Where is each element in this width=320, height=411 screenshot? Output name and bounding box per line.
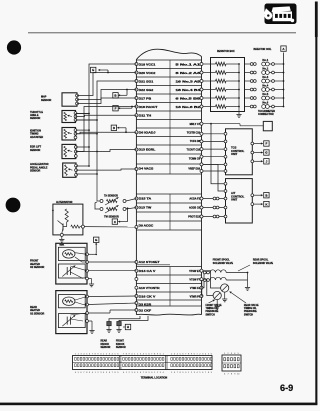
svg-text:D14 CA V: D14 CA V — [139, 269, 156, 273]
svg-text:1: 1 — [224, 353, 225, 355]
svg-text:6 No.5 B8: 6 No.5 B8 — [176, 98, 202, 101]
TCS output marker F — [251, 142, 254, 145]
svg-text:SWITCH: SWITCH — [244, 314, 254, 316]
svg-text:5: 5 — [171, 372, 172, 374]
wire IGADJ signal — [76, 132, 137, 134]
svg-text:TERMINAL LOCATION: TERMINAL LOCATION — [141, 376, 168, 379]
svg-text:VTMF F2: VTMF F2 — [190, 287, 201, 290]
svg-text:6: 6 — [81, 372, 82, 374]
TW sensor (coolant temperature) — [100, 208, 103, 211]
rear heated oxygen sensor — [56, 291, 87, 334]
front valve timing oil pressure switch — [213, 291, 221, 299]
svg-text:SENSOR: SENSOR — [101, 347, 111, 349]
wire PAOUT — [76, 107, 136, 152]
TCS control unit — [226, 129, 253, 175]
reference marker near knock sensors — [123, 326, 125, 328]
ignition timing adjuster — [62, 128, 76, 141]
svg-text:2: 2 — [171, 354, 172, 356]
wire VACS signal — [76, 169, 136, 170]
svg-text:4: 4 — [177, 354, 178, 356]
svg-text:3: 3 — [100, 372, 101, 374]
wire ECU VTSW to rear oil pressure switch — [203, 271, 221, 288]
svg-text:4: 4 — [112, 354, 113, 356]
svg-text:8: 8 — [114, 372, 115, 374]
svg-text:No.1: No.1 — [262, 58, 268, 62]
reference marker G with up arrow — [95, 243, 97, 253]
svg-text:TCFS D8: TCFS D8 — [190, 140, 201, 143]
svg-text:7: 7 — [143, 372, 144, 374]
svg-text:4: 4 — [143, 354, 144, 356]
small connector strip — [222, 355, 241, 371]
svg-text:3: 3 — [81, 354, 82, 356]
svg-text:6: 6 — [109, 372, 110, 374]
svg-text:1: 1 — [197, 354, 198, 356]
svg-text:E: E — [92, 68, 94, 72]
svg-text:9: 9 — [157, 354, 158, 356]
svg-text:5: 5 — [106, 372, 107, 374]
svg-text:2: 2 — [137, 354, 138, 356]
svg-text:8: 8 — [188, 354, 189, 356]
svg-text:D9 ACGC: D9 ACGC — [139, 224, 154, 228]
svg-text:10: 10 — [237, 373, 239, 375]
svg-text:6: 6 — [140, 372, 141, 374]
alternator — [53, 204, 83, 235]
svg-text:4: 4 — [197, 372, 198, 374]
svg-text:D11 TH: D11 TH — [139, 114, 152, 118]
resistor box ground — [238, 112, 240, 115]
svg-text:6: 6 — [211, 354, 212, 356]
svg-text:0: 0 — [194, 354, 195, 356]
reference marker near ignition adjuster — [125, 131, 127, 133]
svg-text:D13 EGRL: D13 EGRL — [139, 148, 156, 152]
svg-text:G201: G201 — [59, 245, 65, 247]
svg-text:0: 0 — [100, 354, 101, 356]
svg-text:7: 7 — [92, 354, 93, 356]
wire ECU to TCS control unit — [203, 140, 224, 142]
wire SG2 to MAP — [77, 90, 136, 104]
svg-text:KNOCK: KNOCK — [116, 344, 125, 346]
svg-text:No.3: No.3 — [262, 75, 268, 79]
injector No.4 — [245, 89, 251, 91]
resistor R2 — [203, 72, 216, 74]
svg-text:6: 6 — [224, 373, 225, 375]
svg-text:PRESSURE: PRESSURE — [244, 311, 257, 313]
tachometer connector — [263, 121, 272, 130]
svg-text:1: 1 — [126, 372, 127, 374]
wire EGRL signal — [97, 150, 136, 152]
svg-text:7: 7 — [123, 354, 124, 356]
accelerator pedal angle sensor — [63, 163, 76, 177]
svg-text:D15 TA: D15 TA — [139, 197, 152, 201]
svg-text:ACGA F1: ACGA F1 — [189, 198, 200, 201]
wire MRLY to tachometer connector — [203, 123, 240, 125]
wire VCC2 to MAP — [77, 73, 136, 96]
svg-text:8: 8 — [154, 354, 155, 356]
svg-text:0: 0 — [185, 372, 186, 374]
svg-text:4: 4 — [75, 372, 76, 374]
wire TA to ECU — [126, 199, 136, 202]
wire ECU to TCS control unit — [203, 148, 224, 150]
svg-text:SWITCH: SWITCH — [206, 314, 216, 316]
svg-text:9: 9 — [148, 372, 149, 374]
svg-text:F: F — [115, 106, 117, 110]
svg-text:D21 SG1: D21 SG1 — [139, 80, 154, 84]
svg-text:0: 0 — [123, 372, 124, 374]
svg-text:SENSOR: SENSOR — [41, 99, 52, 102]
svg-text:2: 2 — [199, 354, 200, 356]
svg-text:SOLENOID VALVE: SOLENOID VALVE — [213, 262, 234, 265]
svg-text:ACGB C9: ACGB C9 — [189, 207, 201, 210]
wire ECU to TCS control unit — [203, 170, 224, 172]
svg-text:5: 5 — [146, 354, 147, 356]
A/T output marker K — [251, 203, 254, 206]
svg-text:SOLENOID VALVE: SOLENOID VALVE — [253, 262, 274, 265]
svg-text:D2 CKF: D2 CKF — [139, 309, 152, 313]
svg-text:1: 1 — [188, 372, 189, 374]
svg-text:PROT E13: PROT E13 — [188, 216, 200, 219]
svg-text:No.5: No.5 — [262, 92, 268, 96]
svg-text:2: 2 — [78, 354, 79, 356]
svg-text:1: 1 — [103, 354, 104, 356]
injector No.6 — [245, 106, 251, 108]
wire ECU to rear knock sensor — [109, 316, 140, 322]
wire PB signal — [77, 98, 136, 100]
svg-text:9: 9 — [234, 373, 235, 375]
svg-text:KNOCK: KNOCK — [101, 344, 110, 346]
svg-text:6: 6 — [202, 372, 203, 374]
wire rear O2 signal to ECU — [88, 312, 110, 314]
wire riser to A/T pin 1 — [210, 123, 212, 125]
svg-text:SENSOR: SENSOR — [30, 170, 41, 173]
svg-text:TCMM C8: TCMM C8 — [189, 158, 201, 161]
resistor R6 — [203, 106, 216, 108]
svg-text:2: 2 — [129, 372, 130, 374]
injector No.2 — [245, 72, 251, 74]
svg-text:3: 3 — [160, 372, 161, 374]
svg-text:3: 3 — [131, 372, 132, 374]
svg-text:8: 8 — [86, 372, 87, 374]
svg-text:6: 6 — [148, 354, 149, 356]
svg-text:4: 4 — [234, 353, 235, 355]
wire riser to A/T pin 2 — [203, 164, 226, 191]
svg-text:D13 TW: D13 TW — [139, 206, 152, 210]
svg-text:4: 4 — [134, 372, 135, 374]
resistor R1 — [203, 63, 216, 65]
resistor box — [211, 58, 245, 112]
wire ECU VTSW2 to front oil pressure switch — [203, 279, 213, 295]
svg-text:4: 4 — [205, 354, 206, 356]
svg-text:9: 9 — [98, 354, 99, 356]
svg-text:6: 6 — [117, 354, 118, 356]
svg-text:REAR: REAR — [101, 340, 108, 343]
ECU connector divider — [169, 60, 171, 174]
wire front O2 heater to marker — [88, 253, 96, 255]
svg-text:3: 3 — [140, 354, 141, 356]
TA sensor (intake air temperature) — [100, 200, 103, 203]
svg-text:0: 0 — [160, 354, 161, 356]
svg-text:D4 VACS: D4 VACS — [139, 167, 154, 171]
reference marker on PAOUT wire — [131, 106, 133, 108]
rear O2 internal wires — [75, 297, 87, 301]
svg-text:18 No.4 B4: 18 No.4 B4 — [176, 89, 202, 92]
svg-text:2: 2 — [106, 354, 107, 356]
wire ECU to TCS control unit — [203, 163, 224, 165]
svg-text:8: 8 — [231, 373, 232, 375]
wire TW left join — [95, 202, 100, 209]
svg-text:5: 5 — [86, 354, 87, 356]
svg-text:D16 CK V: D16 CK V — [139, 295, 156, 299]
front spool solenoid valve — [203, 271, 206, 274]
svg-text:INJECTOR COIL: INJECTOR COIL — [254, 49, 273, 51]
svg-text:TIMING OIL: TIMING OIL — [206, 308, 219, 310]
svg-text:FRONT VALVE: FRONT VALVE — [206, 304, 223, 307]
alternator ground — [60, 233, 63, 236]
TCS output marker J — [251, 160, 254, 163]
front knock sensor — [117, 322, 121, 326]
svg-text:FRONT SPOOL: FRONT SPOOL — [213, 260, 230, 262]
svg-text:No.4: No.4 — [262, 84, 268, 88]
svg-text:No.6: No.6 — [262, 101, 268, 105]
svg-text:0: 0 — [92, 372, 93, 374]
svg-text:0: 0 — [131, 354, 132, 356]
wire front O2 signal to ECU — [88, 270, 136, 272]
svg-text:No.2: No.2 — [262, 67, 268, 71]
svg-text:0: 0 — [151, 372, 152, 374]
rear spool pointer — [238, 265, 250, 271]
svg-text:4: 4 — [103, 372, 104, 374]
svg-text:UNIT: UNIT — [231, 198, 238, 202]
svg-text:7: 7 — [205, 372, 206, 374]
ECU left edge terminal circles — [135, 63, 138, 66]
svg-text:6 No.2 A3: 6 No.2 A3 — [176, 72, 202, 75]
svg-text:SENSOR: SENSOR — [116, 347, 126, 349]
svg-text:1: 1 — [134, 354, 135, 356]
resistor box common bus — [238, 64, 240, 112]
svg-text:D19 VCC1: D19 VCC1 — [139, 63, 156, 67]
svg-text:VREF D16: VREF D16 — [188, 168, 200, 171]
svg-text:6: 6 — [182, 354, 183, 356]
wire front O2 to ECU A12 — [88, 261, 136, 263]
svg-text:1: 1 — [163, 354, 164, 356]
injector No.1 — [245, 63, 251, 65]
wire SG1 rail — [76, 81, 137, 120]
reference marker B with arrow — [107, 72, 109, 74]
svg-text:5: 5 — [114, 354, 115, 356]
svg-text:8: 8 — [208, 372, 209, 374]
svg-text:D6 IGADJ: D6 IGADJ — [139, 131, 156, 135]
svg-text:7: 7 — [177, 372, 178, 374]
header rule — [28, 32, 296, 34]
svg-text:MRLY C7: MRLY C7 — [190, 123, 201, 126]
terminal pins and numbering — [75, 357, 77, 360]
svg-text:6: 6 — [174, 372, 175, 374]
svg-text:D20 VCC2: D20 VCC2 — [139, 71, 156, 75]
wire rear O2 to ECU KSR row — [88, 303, 136, 305]
svg-text:9: 9 — [211, 372, 212, 374]
svg-text:7: 7 — [185, 354, 186, 356]
wire ECU to TCS control unit — [203, 156, 224, 158]
svg-text:SENSOR: SENSOR — [30, 149, 41, 152]
svg-text:5: 5 — [180, 354, 181, 356]
svg-text:1: 1 — [75, 354, 76, 356]
svg-text:9: 9 — [191, 354, 192, 356]
svg-text:TW SENSOR: TW SENSOR — [104, 215, 119, 218]
rear valve timing oil pressure switch — [221, 284, 229, 292]
terminal location connector strip — [73, 356, 213, 370]
partial row line under A12 — [136, 264, 170, 266]
EGR valve lift sensor — [62, 144, 76, 158]
svg-text:7: 7 — [83, 372, 84, 374]
svg-text:3: 3 — [231, 353, 232, 355]
wire TH signal — [76, 115, 137, 116]
punch hole bottom — [6, 198, 21, 213]
svg-text:2: 2 — [191, 372, 192, 374]
engine section icon (black tab) — [265, 4, 297, 25]
svg-text:5 No.1 A1: 5 No.1 A1 — [176, 64, 202, 67]
svg-text:8: 8 — [95, 354, 96, 356]
reference marker A (injector supply) — [281, 46, 286, 51]
svg-text:O2 SENSOR: O2 SENSOR — [30, 266, 44, 269]
svg-text:RESISTOR BOX: RESISTOR BOX — [217, 51, 235, 53]
bottom page border — [0, 403, 317, 406]
svg-text:9: 9 — [89, 372, 90, 374]
svg-text:5: 5 — [208, 354, 209, 356]
wire VCC1 rail — [76, 64, 137, 114]
svg-text:TIMING OIL: TIMING OIL — [244, 308, 257, 310]
svg-text:ADJUSTER: ADJUSTER — [30, 136, 43, 139]
rear knock sensor — [107, 322, 111, 326]
svg-text:1: 1 — [95, 372, 96, 374]
svg-text:TCSTB C10: TCSTB C10 — [187, 132, 201, 135]
svg-text:O2 SENSOR: O2 SENSOR — [30, 312, 44, 315]
svg-text:D18 PAOUT: D18 PAOUT — [139, 105, 158, 109]
svg-text:6-9: 6-9 — [280, 383, 293, 393]
svg-text:3: 3 — [174, 354, 175, 356]
svg-text:9: 9 — [129, 354, 130, 356]
svg-text:2: 2 — [227, 353, 228, 355]
right page border — [315, 2, 318, 38]
front O2 internal wires — [75, 253, 87, 255]
svg-text:VTSW F7: VTSW F7 — [189, 279, 200, 282]
svg-text:2: 2 — [98, 372, 99, 374]
wire ECU ACGB to A/T — [203, 207, 226, 209]
svg-text:9: 9 — [182, 372, 183, 374]
svg-text:H: H — [127, 325, 129, 329]
svg-text:3: 3 — [202, 354, 203, 356]
svg-text:A10 VTCNTR: A10 VTCNTR — [139, 286, 160, 290]
wire ECU VTMF to front spool valve — [203, 273, 204, 288]
svg-text:4: 4 — [163, 372, 164, 374]
svg-text:VTMR F6: VTMR F6 — [190, 296, 201, 299]
A/T control unit — [226, 179, 253, 223]
resistor R3 — [203, 80, 216, 82]
wire ECU PROT to A/T — [203, 216, 226, 218]
injector supply bus — [283, 53, 285, 107]
wire ECU VTMR to rear spool valve — [202, 280, 203, 296]
TCS output marker G — [251, 151, 254, 154]
svg-text:9: 9 — [117, 372, 118, 374]
svg-text:D3 KSR: D3 KSR — [139, 303, 152, 307]
svg-text:7: 7 — [227, 373, 228, 375]
svg-text:CONNECTOR: CONNECTOR — [258, 113, 274, 116]
svg-text:5: 5 — [78, 372, 79, 374]
reference marker on SG2 wire — [126, 89, 128, 91]
svg-text:TCOUT C16: TCOUT C16 — [186, 149, 200, 152]
front heated oxygen sensor — [56, 243, 87, 284]
svg-text:REAR SPOOL: REAR SPOOL — [253, 259, 269, 262]
wire ECU ACGA to A/T — [203, 198, 226, 200]
svg-text:8: 8 — [126, 354, 127, 356]
ECU connector row lines — [136, 59, 201, 61]
svg-text:4: 4 — [83, 354, 84, 356]
resistor R4 — [203, 89, 216, 91]
wire ECU to TCS control unit — [203, 133, 224, 135]
injector No.5 — [245, 97, 251, 99]
svg-text:5: 5 — [199, 372, 200, 374]
resistor R5 — [203, 97, 216, 99]
svg-text:D17 PB: D17 PB — [139, 97, 152, 101]
solenoid valve common ground — [247, 272, 249, 274]
reference marker from TW branch — [127, 207, 129, 209]
svg-text:REAR VALVE: REAR VALVE — [244, 304, 259, 307]
wire TW to ECU — [126, 208, 136, 210]
svg-text:3: 3 — [109, 354, 110, 356]
wire alternator to ECU ACGC — [84, 226, 136, 228]
A/T output marker B — [251, 194, 254, 197]
svg-text:6: 6 — [89, 354, 90, 356]
svg-text:UNIT: UNIT — [231, 152, 238, 156]
pressure switch pointers — [230, 292, 247, 304]
svg-text:TA SENSOR: TA SENSOR — [104, 194, 118, 197]
svg-text:7: 7 — [151, 354, 152, 356]
rear spool solenoid valve — [203, 279, 206, 282]
svg-text:VTSW E7: VTSW E7 — [189, 270, 200, 273]
svg-text:8: 8 — [146, 372, 147, 374]
MAP sensor — [62, 93, 77, 106]
svg-text:D22 SG2: D22 SG2 — [139, 88, 154, 92]
TA ground rail up — [96, 174, 98, 201]
injector No.3 — [245, 80, 251, 82]
svg-text:PRESSURE: PRESSURE — [206, 311, 219, 313]
svg-text:SENSOR: SENSOR — [30, 117, 41, 120]
svg-text:2: 2 — [157, 372, 158, 374]
wire rear O2 heater to ECU — [88, 295, 136, 298]
svg-text:FRONT: FRONT — [116, 341, 125, 343]
rear O2 ground — [88, 320, 92, 322]
svg-text:A12 STCSET: A12 STCSET — [139, 260, 160, 264]
svg-text:1: 1 — [154, 372, 155, 374]
svg-text:16 No.3 A5: 16 No.3 A5 — [176, 81, 202, 84]
svg-text:8: 8 — [180, 372, 181, 374]
punch hole top — [7, 40, 21, 54]
svg-text:5: 5 — [137, 372, 138, 374]
throttle angle sensor — [62, 111, 76, 123]
svg-text:5: 5 — [238, 353, 239, 355]
wire ECU to front knock sensor — [119, 316, 148, 322]
svg-text:7: 7 — [112, 372, 113, 374]
ECU connector block outline (torn top and bottom) — [136, 49, 201, 59]
svg-text:F: F — [265, 142, 267, 146]
svg-text:13 No.6 B2: 13 No.6 B2 — [176, 106, 202, 109]
front O2 ground — [88, 278, 91, 280]
svg-text:3: 3 — [194, 372, 195, 374]
ECU right edge terminal circles — [200, 63, 203, 66]
